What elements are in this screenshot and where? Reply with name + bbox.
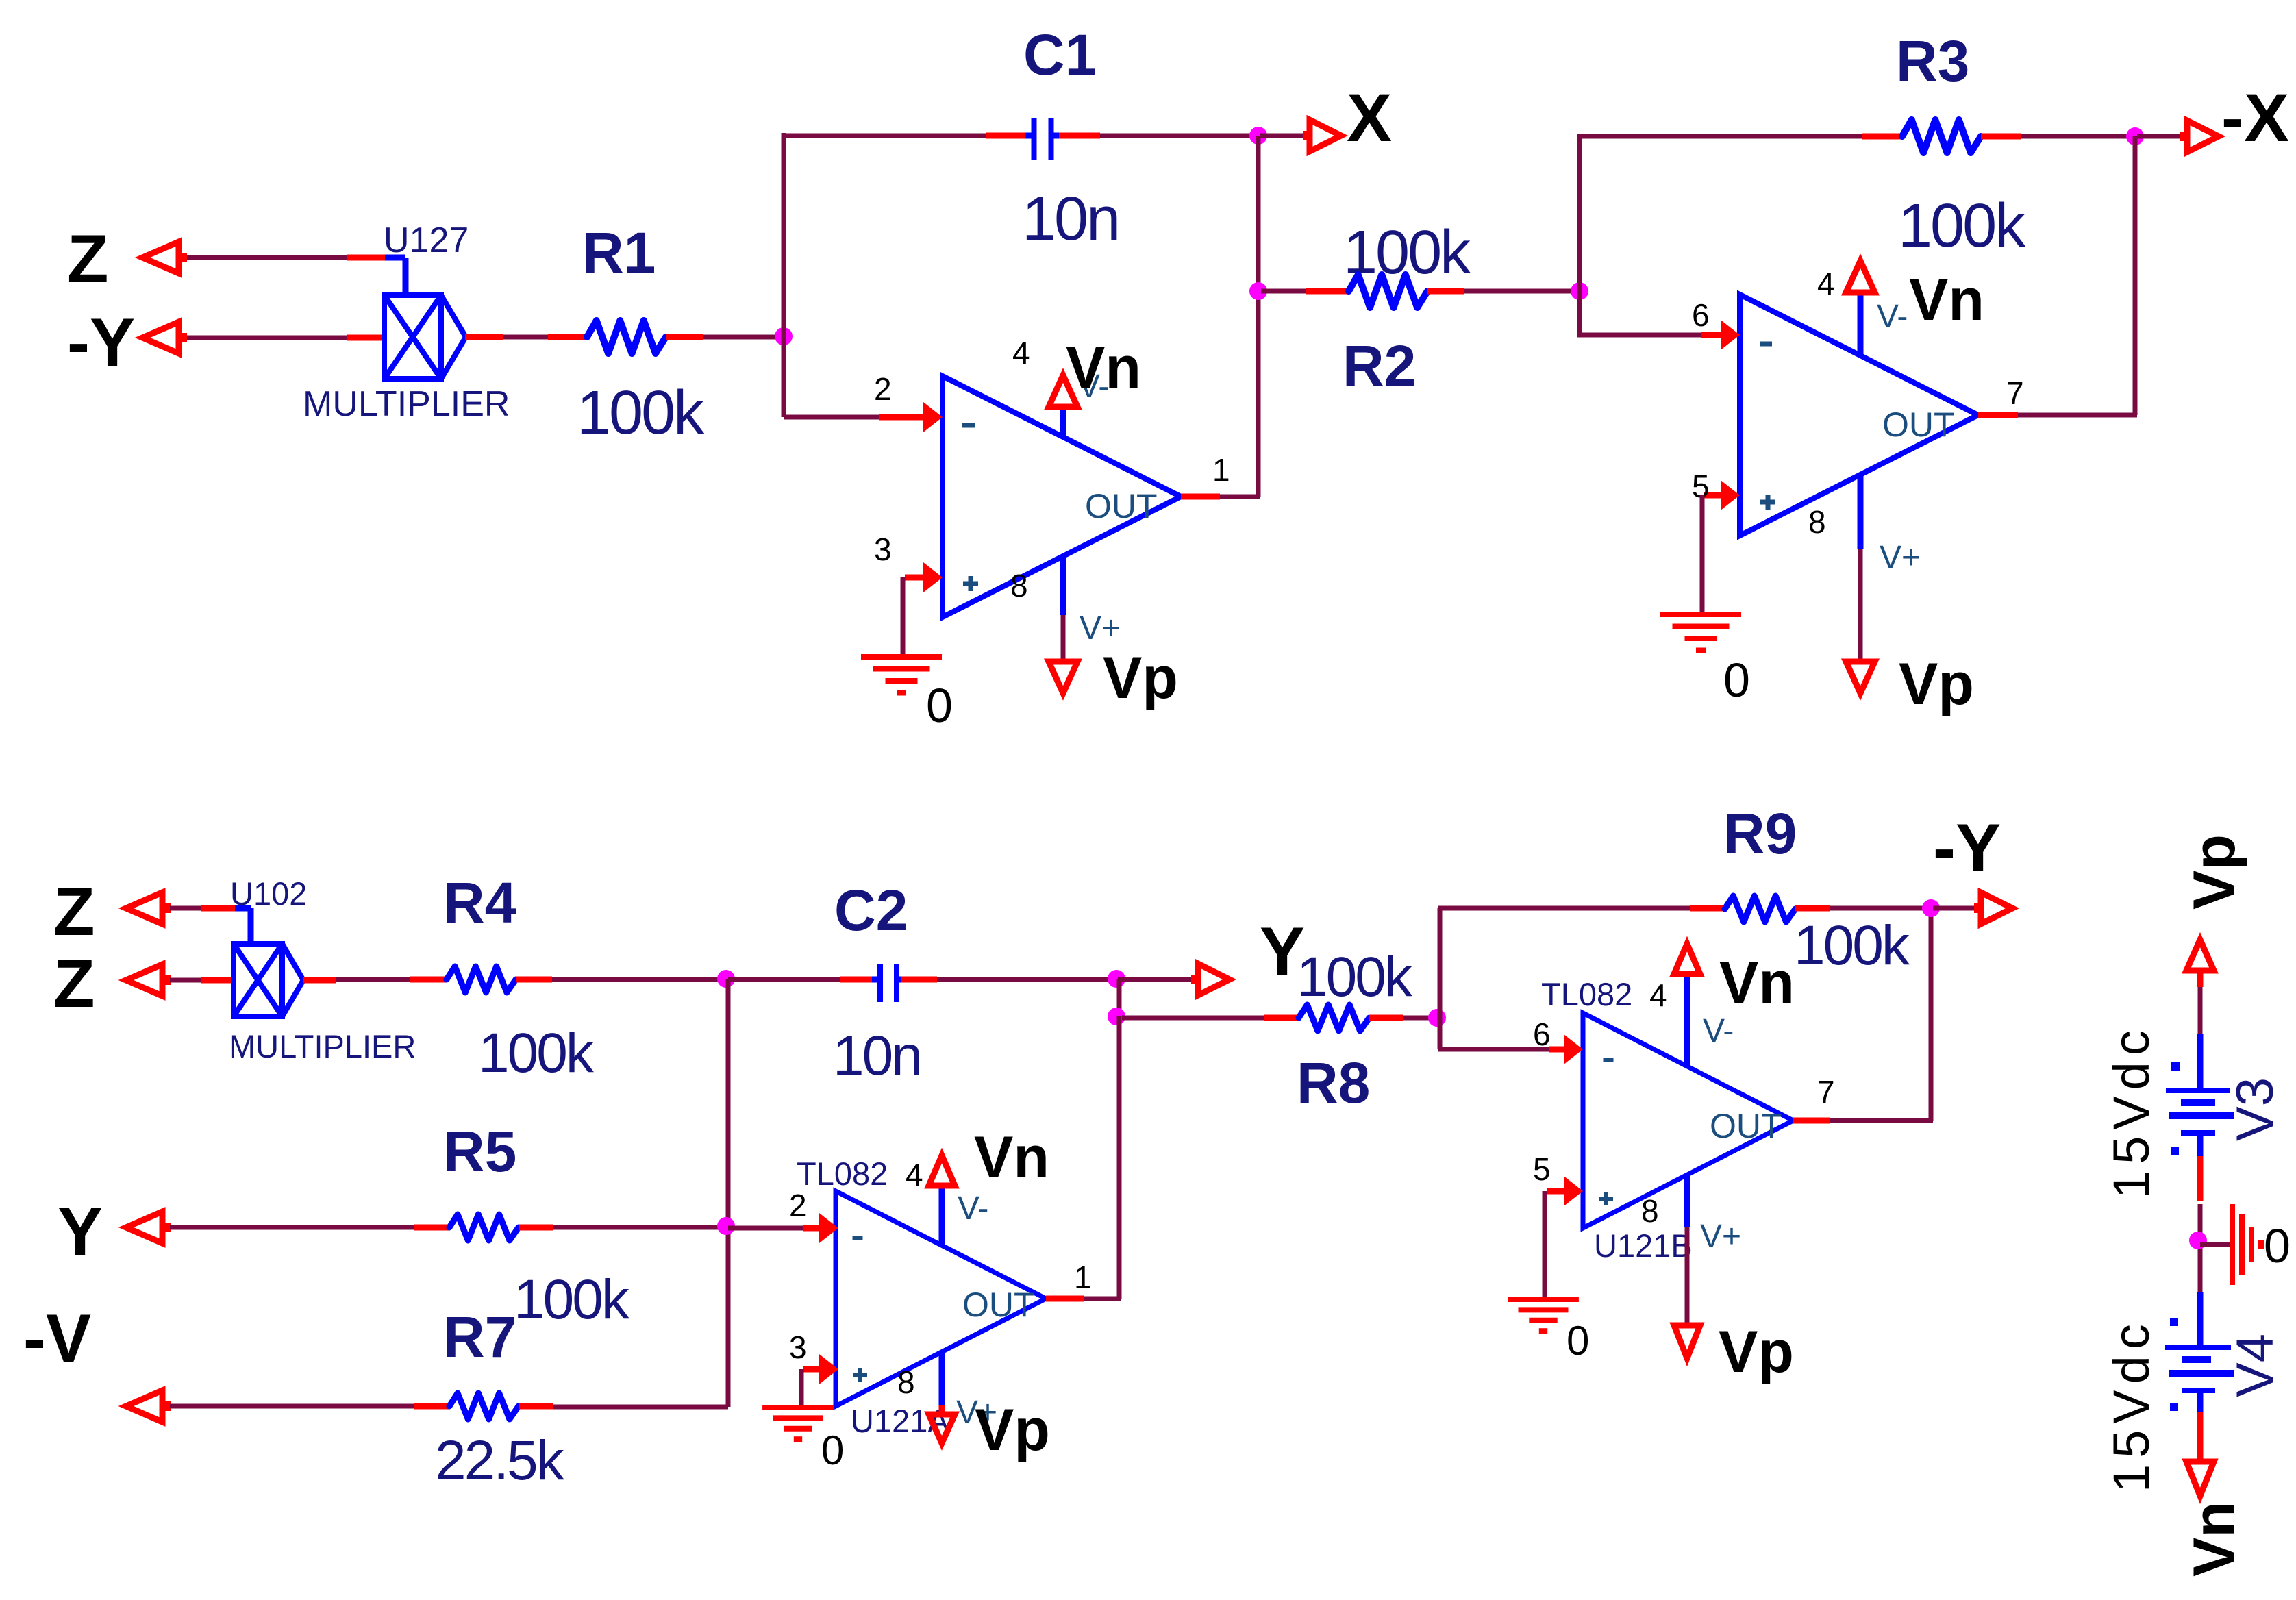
svg-text:V+: V+ [1880,540,1921,576]
node -Y junction [1922,899,1940,917]
svg-text:0: 0 [821,1427,844,1473]
svg-text:0: 0 [926,679,953,732]
wire R7 to column corner [553,1405,728,1410]
svg-text:4: 4 [1817,266,1835,301]
svg-text:MULTIPLIER: MULTIPLIER [303,384,510,424]
svg-text:OUT: OUT [1085,487,1158,525]
svg-text:R5: R5 [443,1119,516,1184]
U2 pin 5 non-inverting input [1704,492,1722,499]
battery V3 15Vdc [2197,1034,2204,1090]
node -X junction [2126,127,2144,145]
wire -Y riser [1929,908,1934,1121]
multiplier U127 [384,295,441,379]
U1 pin3 ground wire [901,577,906,655]
ground 0 under U1 [861,654,942,660]
U1 pin 2 inverting input [784,415,879,420]
svg-text:R4: R4 [443,871,517,935]
U121A V+ arrow to Vp [929,1414,955,1443]
svg-text:-Y: -Y [1933,810,2001,886]
port -Y (output) [1933,906,1975,911]
svg-text:2: 2 [789,1188,807,1223]
svg-text:3: 3 [789,1329,807,1365]
svg-text:Vp: Vp [1899,651,1974,717]
svg-text:4: 4 [906,1157,923,1192]
U1 pin 3 non-inverting input [905,575,925,581]
multiplier U102 [234,944,282,1016]
U121B pin 8 V+ lead [1684,1175,1690,1227]
svg-text:R8: R8 [1297,1051,1370,1115]
U121A V- arrow to Vn [929,1155,955,1186]
U1 pin 8 V+ lead [1060,556,1066,615]
U2 V+ arrow to Vp [1846,662,1875,693]
wire V4 to Vn [2197,1412,2204,1462]
wire U121A output riser [1117,1016,1122,1299]
wire Z to U102 pin2 [170,978,201,983]
svg-text:OUT: OUT [1710,1107,1782,1145]
svg-text:0: 0 [1567,1318,1589,1364]
U121B V+ arrow to Vp [1674,1325,1700,1358]
svg-text:8: 8 [1641,1193,1659,1229]
U121B pin 5 non-inverting input [1547,1188,1566,1195]
svg-text:10n: 10n [1022,185,1119,253]
wire node -X down to U2 output [2133,136,2138,415]
node F junction [717,1217,735,1235]
U2 pin 4 V- lead [1858,292,1864,355]
svg-text:Vn: Vn [974,1125,1049,1190]
svg-text:R2: R2 [1343,334,1416,398]
node E junction on U121B riser [1428,1009,1446,1027]
wire Vp to V3 [2197,971,2204,987]
svg-text:V+: V+ [1080,610,1121,647]
svg-text:MULTIPLIER: MULTIPLIER [229,1028,416,1064]
wire riser node A [782,133,786,417]
svg-text:X: X [1347,79,1392,155]
U121B pin 6 inverting input [1438,1047,1549,1052]
svg-text:Vn: Vn [1066,335,1141,401]
U121A pin 2 inverting input [819,1213,838,1243]
wire node X down to R2 node [1256,136,1261,497]
svg-text:V-: V- [958,1190,988,1227]
wire V3 to ground node [2197,1156,2204,1201]
U1 V+ arrow to Vp [1049,662,1077,693]
svg-text:TL082: TL082 [797,1155,888,1192]
node B junction [717,970,735,988]
svg-text:Z: Z [53,945,95,1021]
svg-text:3: 3 [874,532,892,567]
svg-text:Vp: Vp [1103,645,1178,711]
ground 0 battery (rotated) [2230,1204,2235,1285]
svg-text:100k: 100k [478,1022,595,1084]
U121B V- arrow to Vn [1674,944,1700,974]
wire -V to R7 [170,1404,414,1409]
svg-text:-V: -V [23,1300,91,1376]
svg-text:V-: V- [1703,1013,1734,1049]
U121A pin3 ground wire [799,1369,804,1405]
node battery mid junction [2189,1232,2207,1249]
svg-text:-X: -X [2221,79,2289,155]
svg-text:100k: 100k [514,1268,630,1331]
svg-text:U121B: U121B [1594,1227,1693,1264]
svg-text:R3: R3 [1896,29,1969,93]
svg-text:5: 5 [1533,1151,1551,1187]
svg-text:7: 7 [1817,1074,1835,1110]
wire R5 to node F [553,1225,728,1230]
U121A pin 4 V- lead [939,1184,945,1245]
svg-text:C1: C1 [1023,23,1097,87]
svg-text:1: 1 [1212,452,1230,488]
wire C2 to node C [937,977,1118,982]
svg-text:100k: 100k [1898,192,2026,260]
node D junction [1108,1008,1125,1025]
svg-text:4: 4 [1649,977,1667,1013]
wire Z to U127 pin1 [187,255,347,260]
svg-text:Vp: Vp [975,1397,1050,1463]
svg-text:R9: R9 [1723,801,1797,866]
wire to battery ground [2200,1242,2232,1247]
U121B pin5 ground wire [1543,1191,1547,1297]
wire R1 to node A [703,335,784,340]
svg-text:4: 4 [1012,335,1030,371]
port Y (bottom output) [1118,977,1193,982]
wire node F to U121A pin2 [728,1226,803,1231]
svg-text:Vn: Vn [1909,267,1984,333]
svg-text:0: 0 [2264,1219,2291,1273]
svg-text:R1: R1 [582,221,656,285]
battery V4 15Vdc [2197,1292,2204,1347]
wire C1 to node X [1100,134,1260,138]
svg-text:R7: R7 [443,1305,516,1369]
svg-text:Vp: Vp [1719,1319,1794,1385]
svg-text:TL082: TL082 [1541,976,1632,1012]
svg-text:8: 8 [897,1364,915,1400]
port -X (output) [2137,134,2181,139]
svg-text:100k: 100k [1794,914,1910,977]
wire R2 to U2 riser [1464,289,1580,294]
U2 pin 6 inverting input [1577,333,1701,338]
svg-text:7: 7 [2006,375,2024,411]
port Vn (battery bottom) [2186,1462,2214,1496]
svg-text:V4: V4 [2226,1334,2284,1397]
svg-text:100k: 100k [1297,946,1413,1008]
ground 0 under U121B [1508,1297,1579,1302]
svg-text:8: 8 [1010,568,1028,603]
svg-text:Y: Y [58,1193,103,1269]
op-amp U121B triangle [1583,1013,1793,1228]
U121B feedback riser [1438,908,1443,1049]
port X (output) [1260,134,1303,138]
wire U127 output to R1 [465,334,503,340]
ground 0 under U121A [762,1405,834,1410]
svg-text:Vn: Vn [1719,950,1795,1016]
U1 pin 4 V- lead [1060,405,1066,437]
svg-text:15Vdc: 15Vdc [2103,1318,2160,1492]
wire Y to R5 [170,1225,414,1230]
wire Z to U102 pin1 [170,906,201,911]
svg-text:1: 1 [1074,1260,1092,1295]
svg-text:15Vdc: 15Vdc [2103,1024,2160,1199]
wire column node B down [726,979,731,1407]
svg-text:V-: V- [1877,299,1908,335]
svg-text:10n: 10n [833,1025,921,1087]
U2 input riser [1571,282,1588,300]
op-amp U121A triangle [836,1191,1046,1406]
svg-text:U127: U127 [384,221,469,260]
node C junction [1108,970,1125,988]
svg-text:22.5k: 22.5k [435,1429,565,1492]
wire -Y to U127 pin2 [187,336,347,340]
svg-text:0: 0 [1723,653,1750,707]
svg-text:Vn: Vn [2182,1501,2247,1577]
svg-text:8: 8 [1808,504,1826,540]
svg-text:-Y: -Y [67,304,135,380]
wire C1 feedback left [782,134,986,138]
node R2 junction [1249,282,1267,300]
U2 pin5 ground wire [1700,495,1705,612]
U121B pin 4 V- lead [1684,973,1690,1066]
svg-text:6: 6 [1533,1016,1551,1052]
svg-text:Z: Z [53,873,95,949]
U1 V- arrow to Vn [1049,375,1077,407]
svg-text:V+: V+ [1700,1218,1741,1255]
svg-text:100k: 100k [577,379,705,447]
wire node C jog down to node D [1117,979,1122,1018]
node X junction [1249,127,1267,145]
U121A pin 3 non-inverting input [803,1366,821,1373]
svg-text:Z: Z [67,221,108,297]
U121A pin 8 V+ lead [939,1352,945,1405]
svg-text:OUT: OUT [962,1286,1035,1324]
wire R4 to node B [552,977,726,982]
node A junction [775,327,793,345]
ground 0 under U2 [1660,612,1741,617]
U2 pin 8 V+ lead [1858,475,1864,549]
svg-text:U102: U102 [230,875,307,912]
svg-text:OUT: OUT [1882,405,1955,444]
U2 V- arrow to Vn [1846,261,1875,292]
svg-text:6: 6 [1692,297,1710,333]
op-amp U2 triangle [1740,295,1978,536]
svg-text:2: 2 [874,371,892,407]
svg-text:V3: V3 [2226,1077,2284,1141]
wire U102 output to R4 [303,977,336,984]
svg-text:C2: C2 [834,878,908,942]
op-amp U1 triangle [943,376,1181,617]
svg-text:Vp: Vp [2182,834,2247,910]
